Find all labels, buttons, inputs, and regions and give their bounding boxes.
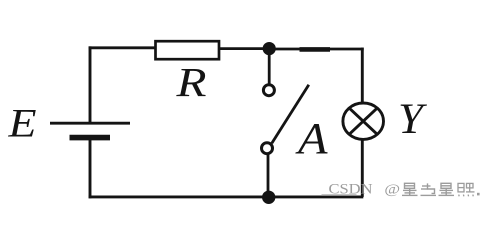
watermark glyph xing1 second — [439, 183, 455, 195]
watermark underline — [322, 194, 357, 196]
watermark glyph xing1 first — [402, 183, 418, 195]
watermark glyph xi — [458, 183, 475, 196]
wire middle vertical lower (switch to node) — [267, 155, 270, 197]
resistor R — [156, 41, 220, 59]
switch A top contact — [263, 85, 274, 96]
wire top-right horizontal — [269, 48, 364, 51]
watermark period — [477, 193, 480, 196]
node bottom junction — [262, 191, 275, 204]
lamp Y cross stroke 2 — [349, 108, 377, 134]
switch A blade — [272, 85, 309, 143]
battery E long plate — [50, 122, 130, 125]
wire resistor to node — [219, 47, 269, 50]
svg-text:R: R — [175, 59, 206, 105]
lamp Y body — [343, 103, 384, 139]
svg-text:@: @ — [384, 182, 400, 197]
svg-text:A: A — [295, 114, 329, 163]
lamp Y cross stroke 1 — [349, 108, 377, 134]
node top junction — [263, 42, 276, 55]
thick dash on top wire — [300, 47, 331, 52]
wire left vertical upper — [89, 46, 92, 123]
wire right vertical lower — [361, 139, 364, 197]
wire bottom horizontal — [89, 195, 364, 198]
switch A bottom contact — [262, 143, 273, 154]
wire middle vertical upper (node to switch) — [268, 49, 271, 84]
wire left vertical lower — [89, 140, 92, 198]
wire right vertical upper — [361, 48, 364, 103]
svg-text:E: E — [7, 101, 36, 146]
watermark glyph yu — [421, 183, 437, 195]
battery E short thick plate — [70, 135, 111, 141]
svg-text:Y: Y — [398, 96, 427, 143]
wire top-left horizontal — [89, 46, 156, 49]
